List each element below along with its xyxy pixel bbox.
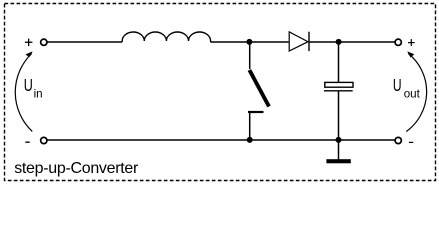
node junction top capacitor <box>336 39 342 45</box>
wire switch lower lead <box>249 112 251 140</box>
wire diode to output <box>310 41 395 43</box>
label Uout <box>393 76 421 101</box>
label plus input <box>25 39 33 47</box>
switch S1 blade <box>249 70 269 107</box>
wire bottom rail <box>47 139 394 141</box>
wire inductor to diode <box>211 41 289 43</box>
svg-text:U: U <box>393 76 402 96</box>
ground <box>326 159 350 163</box>
wire top-left <box>47 41 122 43</box>
wire switch upper lead <box>249 42 251 69</box>
label plus output <box>408 39 415 46</box>
capacitor C1 bottom plate <box>324 90 353 92</box>
svg-text:out: out <box>404 87 421 100</box>
terminal input minus <box>41 137 47 143</box>
svg-text:U: U <box>24 76 33 96</box>
capacitor C1 top plate <box>325 82 353 87</box>
arrow Uout arc <box>406 54 426 132</box>
inductor L1 <box>122 32 210 42</box>
terminal input plus <box>41 39 47 45</box>
wire capacitor upper lead <box>338 42 340 82</box>
arrow Uin arc <box>15 54 32 132</box>
node junction bottom capacitor/ground <box>336 137 342 143</box>
diode D1 <box>289 32 309 51</box>
arrow Uin head <box>26 52 32 57</box>
label minus input <box>25 142 30 143</box>
node junction top switch <box>246 39 252 45</box>
terminal output plus <box>395 39 401 45</box>
wire capacitor lower lead <box>338 92 340 141</box>
node junction bottom switch <box>247 137 253 143</box>
arrow Uout head <box>408 52 414 58</box>
switch S1 bottom contact <box>248 111 264 113</box>
svg-text:in: in <box>34 87 43 100</box>
wire ground lead <box>338 140 340 160</box>
svg-text:step-up-Converter: step-up-Converter <box>14 160 139 177</box>
terminal output minus <box>395 137 401 143</box>
label minus output <box>409 142 413 143</box>
label Uin <box>24 76 43 100</box>
